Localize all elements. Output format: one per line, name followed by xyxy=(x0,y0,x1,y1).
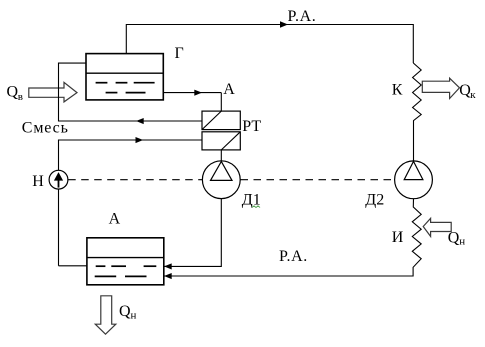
svg-text:Q: Q xyxy=(119,303,131,320)
svg-text:к: к xyxy=(470,89,476,101)
arrowhead mixture line pointing left xyxy=(136,118,144,124)
RT heat exchanger upper half xyxy=(202,111,240,130)
RT diagonal upper xyxy=(202,111,221,130)
D1 triangle xyxy=(211,162,233,181)
svg-text:в: в xyxy=(18,91,23,103)
expander D2 circle xyxy=(395,161,433,199)
dashed shaft D1 to D2 xyxy=(241,179,395,181)
wire RT to generator (mixture line) xyxy=(59,63,203,121)
svg-text:Р.А.: Р.А. xyxy=(288,8,317,25)
Qk output block arrow xyxy=(422,78,459,98)
wire pump N up to RT xyxy=(59,140,203,266)
svg-text:РТ: РТ xyxy=(242,118,261,135)
arrowhead on wire to node A xyxy=(194,90,202,96)
svg-text:Р.А.: Р.А. xyxy=(279,248,308,265)
svg-text:А: А xyxy=(223,81,235,98)
arrowhead on top P.A. wire xyxy=(280,21,288,28)
arrowhead into absorber lower right xyxy=(164,273,172,279)
wire RT to D1 xyxy=(220,150,222,161)
svg-text:К: К xyxy=(392,82,403,99)
pump N arrow up xyxy=(58,180,60,188)
Qv input block arrow xyxy=(29,82,77,102)
svg-text:И: И xyxy=(392,229,404,246)
svg-text:н: н xyxy=(459,235,465,247)
evaporator I zigzag xyxy=(164,199,421,276)
pump N circle xyxy=(49,170,68,189)
wire D1 down and into absorber upper right xyxy=(164,199,221,267)
svg-text:Д2: Д2 xyxy=(365,192,384,209)
arrowhead pump line pointing right xyxy=(136,137,144,143)
wire generator to node A xyxy=(163,92,221,94)
liquid level dashes in absorber xyxy=(95,266,157,276)
wire top P.A. line from generator top to condenser K xyxy=(126,25,413,64)
Qn output block arrow pointing down xyxy=(95,296,116,334)
wire absorber left stub xyxy=(59,265,87,267)
D2 triangle xyxy=(404,161,423,179)
Qn input block arrow pointing left into evaporator xyxy=(423,218,451,236)
absorber A vessel xyxy=(87,238,164,285)
RT diagonal lower xyxy=(221,132,240,150)
svg-text:Q: Q xyxy=(448,229,460,246)
svg-text:Н: Н xyxy=(32,173,44,190)
generator G vessel xyxy=(86,54,163,100)
condenser K zigzag xyxy=(413,63,422,161)
svg-text:н: н xyxy=(131,310,137,322)
dashed shaft N to D1 xyxy=(68,179,202,181)
wire node A down to RT xyxy=(220,93,222,112)
svg-text:Г: Г xyxy=(175,45,184,62)
arrowhead into absorber upper right xyxy=(164,263,172,269)
expander D1 circle xyxy=(202,161,240,199)
grammar squiggle under D1 xyxy=(252,206,260,208)
svg-text:Смесь: Смесь xyxy=(22,120,69,137)
svg-text:А: А xyxy=(109,211,121,228)
RT heat exchanger lower half xyxy=(202,132,240,150)
svg-text:Q: Q xyxy=(7,84,19,101)
liquid level dashes in generator xyxy=(96,83,155,93)
